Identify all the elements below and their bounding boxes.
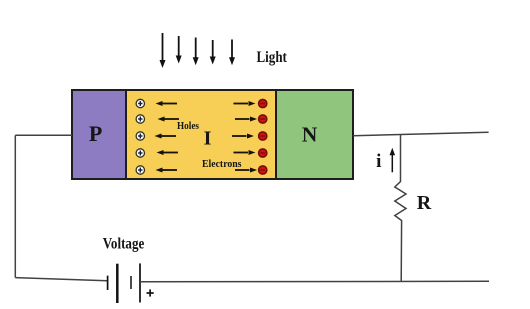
N region: [276, 90, 353, 179]
electron arrow 2: [235, 117, 257, 122]
I region: [126, 90, 276, 179]
electron carrier E1: [259, 99, 267, 107]
wire N to top right: [353, 132, 489, 136]
svg-text:Electrons: Electrons: [202, 159, 242, 170]
electron arrow 5: [235, 168, 257, 173]
electron arrow 1: [234, 101, 256, 106]
electron arrow 3: [232, 134, 254, 139]
light arrow 5: [229, 40, 235, 66]
hole carrier H4: [136, 149, 144, 157]
light arrow 1: [160, 33, 166, 68]
hole arrow 4: [157, 150, 179, 155]
label Holes: [177, 120, 200, 132]
electron carrier E2: [259, 115, 267, 123]
hole arrow 3: [155, 134, 177, 139]
label Voltage: [103, 235, 145, 252]
svg-text:Light: Light: [257, 49, 288, 66]
svg-text:i: i: [376, 151, 381, 172]
hole arrow 2: [158, 117, 180, 122]
electron carrier E5: [259, 166, 267, 174]
resistor R: [395, 135, 406, 282]
label Light: [257, 49, 288, 66]
battery plus label: [147, 289, 154, 296]
svg-text:R: R: [417, 192, 432, 214]
wire P to left rail: [15, 134, 72, 136]
wire left rail down: [14, 135, 16, 277]
P region: [72, 90, 126, 179]
hole arrow 1: [156, 101, 178, 106]
hole carrier H2: [136, 115, 144, 123]
light arrow 3: [193, 38, 199, 66]
label R: [417, 192, 432, 214]
wire battery to bottom right: [140, 280, 489, 283]
electron arrow 4: [234, 150, 256, 155]
hole carrier H1: [136, 99, 144, 107]
hole arrow 5: [156, 168, 178, 173]
light arrow 2: [176, 36, 182, 64]
svg-text:Voltage: Voltage: [103, 235, 145, 252]
hole carrier H3: [136, 132, 144, 140]
svg-text:N: N: [302, 123, 318, 147]
light arrow 4: [210, 40, 216, 65]
electron carrier E3: [259, 132, 267, 140]
label Electrons: [202, 159, 242, 170]
label i: [376, 151, 381, 172]
electron carrier E4: [259, 149, 267, 157]
battery V1: [108, 263, 140, 303]
wire bottom left to battery: [15, 278, 107, 281]
current arrow i: [390, 148, 396, 173]
svg-text:Holes: Holes: [177, 120, 200, 132]
svg-text:I: I: [204, 127, 212, 149]
svg-text:P: P: [89, 121, 102, 146]
hole carrier H5: [136, 166, 144, 174]
